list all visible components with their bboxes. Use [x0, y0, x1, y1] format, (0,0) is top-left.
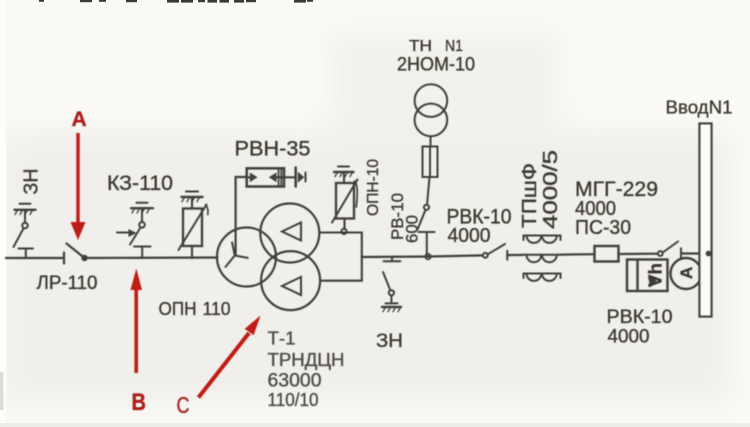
svg-text:63000: 63000 [268, 371, 322, 392]
svg-text:110/10: 110/10 [268, 390, 319, 410]
svg-text:110: 110 [203, 299, 231, 319]
svg-text:2НОМ-10: 2НОМ-10 [397, 55, 475, 76]
svg-text:ТН: ТН [409, 38, 432, 55]
svg-text:N1: N1 [445, 38, 463, 55]
svg-text:КЗ-110: КЗ-110 [107, 172, 173, 195]
svg-text:600: 600 [403, 215, 422, 243]
svg-text:ЗН: ЗН [21, 169, 43, 195]
svg-text:A: A [72, 108, 87, 131]
svg-text:ЗН: ЗН [376, 331, 403, 352]
svg-text:Vh: Vh [646, 263, 666, 287]
svg-text:Т-1: Т-1 [268, 329, 296, 349]
svg-text:ТПшФ: ТПшФ [519, 163, 541, 228]
svg-text:4000: 4000 [448, 225, 491, 247]
svg-text:ВводN1: ВводN1 [666, 98, 733, 118]
svg-text:B: B [132, 389, 147, 416]
svg-text:4000: 4000 [608, 327, 650, 348]
svg-text:A: A [677, 267, 696, 279]
svg-text:ТРНДЦН: ТРНДЦН [268, 350, 345, 370]
svg-text:РВН-35: РВН-35 [235, 138, 311, 161]
svg-text:РВК-10: РВК-10 [607, 307, 673, 328]
svg-text:ПС-30: ПС-30 [575, 217, 631, 239]
svg-text:ЛР-110: ЛР-110 [37, 273, 98, 294]
svg-text:4000/5: 4000/5 [540, 150, 562, 229]
svg-text:ОПН-10: ОПН-10 [365, 159, 382, 216]
svg-text:ОПН: ОПН [159, 299, 197, 319]
svg-text:C: C [177, 392, 190, 418]
